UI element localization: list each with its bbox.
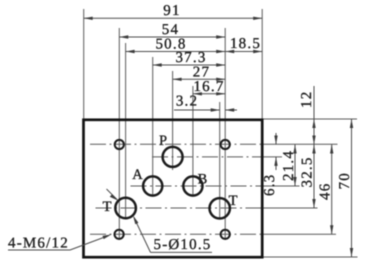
extension/center line B column [192, 86, 194, 197]
center line T port row [96, 207, 263, 209]
port A hole [143, 176, 162, 195]
dimension 27 line [173, 78, 226, 80]
port T2 hole [210, 198, 230, 218]
svg-text:32.5: 32.5 [300, 156, 316, 187]
underline of 5-Ø10.5 label [151, 251, 213, 253]
svg-text:46: 46 [318, 183, 334, 200]
extension/center line P column [172, 71, 174, 170]
extension/center line T1 column [125, 43, 127, 219]
extension/center line A column [152, 57, 154, 197]
center line P port row [152, 156, 262, 158]
plate body outline [84, 120, 263, 257]
dimension 91 line [84, 17, 263, 19]
leader 5-Ø10.5 with diameter arrows across T1 [134, 218, 150, 252]
dimension 46 line (vertical) [331, 145, 333, 235]
svg-text:4-M6/12: 4-M6/12 [8, 236, 69, 252]
svg-text:21.4: 21.4 [281, 150, 297, 181]
extension line right plate edge column [261, 9, 263, 119]
dimension 54 line [119, 36, 225, 38]
extension line plate bottom edge right [263, 256, 358, 258]
dimension 37.3 line [153, 64, 226, 66]
extension/center line right bolt column [224, 28, 226, 240]
bolt hole top-right M6 [221, 140, 230, 149]
svg-text:T: T [103, 199, 112, 215]
svg-text:27: 27 [193, 64, 210, 80]
port B hole [183, 176, 202, 195]
port P hole [163, 147, 183, 167]
svg-text:6.3: 6.3 [262, 174, 278, 196]
svg-text:5-Ø10.5: 5-Ø10.5 [154, 237, 212, 253]
leader 4-M6/12 with underline [8, 249, 70, 251]
extension line plate top edge right [263, 118, 358, 120]
dimension 12 line (vertical) [313, 86, 315, 145]
dimension 18.5 line [225, 51, 262, 53]
bolt hole bottom-right M6 [221, 230, 230, 239]
center line A-B port row [131, 185, 263, 187]
svg-text:T: T [229, 193, 238, 209]
svg-text:P: P [159, 133, 167, 149]
svg-text:91: 91 [163, 3, 180, 19]
extension/center line left bolt column [118, 28, 120, 240]
dimension 3.2 line with outside arrows [174, 109, 220, 111]
center line bottom bolt row [90, 233, 262, 235]
dimension 16.7 line [193, 93, 225, 95]
dimension 21.4 line (vertical) [294, 145, 296, 187]
svg-text:B: B [198, 172, 208, 188]
svg-text:18.5: 18.5 [230, 36, 261, 52]
dimension 6.3 line with outside arrows (vertical) [275, 133, 277, 145]
port T1 hole [115, 198, 136, 219]
dimension 70 line (vertical) [351, 119, 353, 257]
bolt hole bottom-left M6 [115, 230, 124, 239]
bolt hole top-left M6 [115, 140, 124, 149]
svg-text:70: 70 [337, 172, 353, 189]
svg-text:A: A [132, 167, 143, 183]
center line top bolt row [90, 143, 262, 145]
dimension 50.8 line [126, 51, 226, 53]
extension line left plate edge column [83, 9, 85, 119]
extension/center line T2 column [219, 102, 221, 220]
svg-text:3.2: 3.2 [176, 94, 198, 110]
dimension 32.5 line (vertical) [313, 145, 315, 209]
svg-text:12: 12 [299, 91, 315, 108]
